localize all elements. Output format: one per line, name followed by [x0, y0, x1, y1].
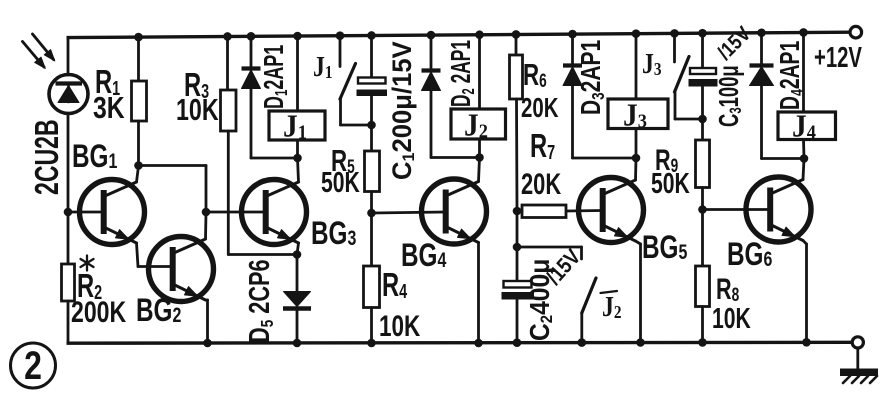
svg-text:R7: R7	[530, 128, 555, 165]
svg-text:+12V: +12V	[814, 42, 862, 74]
svg-text:J1: J1	[283, 108, 307, 143]
svg-text:J3: J3	[623, 97, 647, 132]
svg-text:C3100μ: C3100μ	[714, 65, 745, 127]
svg-text:J2: J2	[464, 107, 488, 142]
svg-text:50K: 50K	[651, 168, 690, 200]
svg-text:C1200μ/15V: C1200μ/15V	[386, 41, 418, 180]
svg-text:R8: R8	[716, 271, 739, 305]
svg-text:50K: 50K	[321, 167, 360, 199]
svg-text:10K: 10K	[712, 303, 751, 335]
svg-text:10K: 10K	[176, 92, 219, 127]
svg-text:J1: J1	[313, 51, 333, 82]
svg-text:D12AP1: D12AP1	[258, 45, 292, 109]
svg-text:3K: 3K	[93, 90, 125, 124]
svg-text:D2 2AP1: D2 2AP1	[445, 40, 479, 107]
svg-text:2CU2B: 2CU2B	[29, 119, 66, 195]
svg-text:D5 2CP6: D5 2CP6	[244, 259, 277, 343]
svg-text:J2: J2	[602, 291, 622, 322]
svg-text:20K: 20K	[521, 93, 559, 124]
svg-text:BG1: BG1	[72, 139, 117, 175]
svg-text:D32AP1: D32AP1	[576, 40, 608, 115]
svg-text:10K: 10K	[379, 309, 420, 343]
svg-text:J3: J3	[642, 48, 662, 79]
svg-text:2: 2	[24, 343, 42, 388]
svg-text:J4: J4	[792, 108, 816, 143]
svg-text:200K: 200K	[71, 295, 127, 329]
svg-text:BG5: BG5	[642, 230, 687, 266]
svg-text:D42AP1: D42AP1	[775, 41, 808, 110]
svg-text:BG6: BG6	[727, 237, 772, 273]
svg-text:R6: R6	[523, 57, 547, 91]
svg-text:BG3: BG3	[311, 216, 356, 252]
svg-text:/15V: /15V	[713, 22, 756, 65]
svg-text:20K: 20K	[521, 167, 561, 201]
